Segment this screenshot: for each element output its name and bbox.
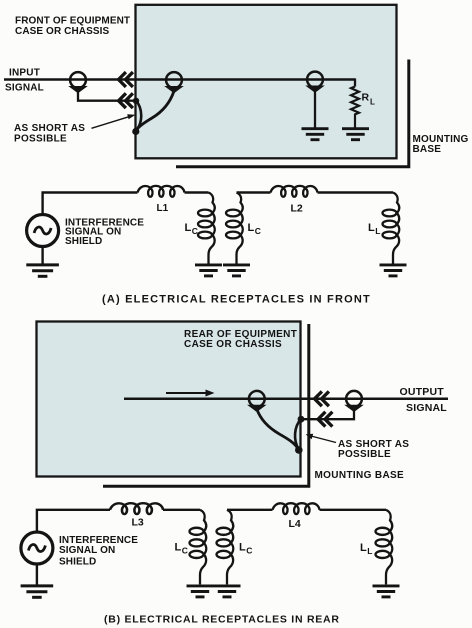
chassis box B bbox=[37, 322, 301, 477]
connector chevrons on output wire bbox=[315, 391, 329, 406]
receptacle J5 bbox=[344, 391, 364, 412]
wire: L3 to Lc1 B bbox=[163, 509, 200, 511]
svg-text:SHIELD: SHIELD bbox=[59, 557, 96, 568]
svg-text:L: L bbox=[370, 97, 375, 106]
svg-text:L: L bbox=[368, 222, 375, 234]
svg-text:(B) ELECTRICAL RECEPTACLES IN: (B) ELECTRICAL RECEPTACLES IN REAR bbox=[104, 614, 340, 626]
inductor L3 bbox=[110, 503, 163, 514]
ground under source B bbox=[21, 586, 54, 597]
wire: source to L1 bbox=[43, 193, 138, 215]
callout arrow AS SHORT AS B bbox=[306, 434, 336, 443]
label FRONT OF EQUIPMENT CASE OR CHASSIS bbox=[15, 16, 130, 38]
caption B bbox=[104, 614, 340, 626]
svg-text:R: R bbox=[362, 92, 370, 104]
inductor L1 bbox=[138, 186, 185, 197]
svg-text:L1: L1 bbox=[157, 203, 169, 214]
svg-text:L4: L4 bbox=[289, 518, 301, 530]
svg-text:L: L bbox=[185, 222, 192, 234]
junction dot chassis B bbox=[295, 446, 303, 454]
wire: L1 to Lc1 bbox=[185, 191, 209, 193]
label REAR OF EQUIPMENT CASE OR CHASSIS bbox=[184, 329, 297, 350]
svg-text:SIGNAL: SIGNAL bbox=[406, 402, 447, 414]
svg-text:L: L bbox=[375, 226, 380, 236]
source ground stem B bbox=[36, 564, 38, 585]
svg-text:CASE OR CHASSIS: CASE OR CHASSIS bbox=[184, 339, 282, 350]
label RL bbox=[362, 92, 376, 107]
mounting base line A bbox=[176, 60, 409, 167]
receptacle J3 bbox=[305, 72, 325, 93]
label L4 bbox=[289, 518, 301, 530]
label L3 bbox=[132, 516, 144, 528]
svg-text:SIGNAL ON: SIGNAL ON bbox=[59, 545, 115, 556]
label LL B bbox=[360, 542, 373, 556]
label INPUT SIGNAL bbox=[5, 68, 44, 94]
label MOUNTING BASE B bbox=[315, 470, 405, 481]
wire: ground strap curve B bbox=[257, 410, 299, 451]
mounting base line B bbox=[103, 324, 309, 486]
svg-text:SIGNAL: SIGNAL bbox=[5, 83, 44, 94]
junction dot shield A bbox=[133, 98, 139, 104]
wire: output signal line bbox=[124, 398, 448, 401]
inductor L4 bbox=[273, 503, 320, 514]
ground under Lc1 B bbox=[187, 586, 214, 597]
ground under LL B bbox=[373, 586, 400, 597]
wire: L4 to LL B bbox=[320, 509, 387, 511]
receptacle J4 bbox=[247, 391, 267, 412]
svg-text:C: C bbox=[192, 226, 198, 236]
wire: Lc2 to L4 bbox=[227, 509, 273, 511]
wire: shield bond arc A bbox=[136, 101, 141, 131]
svg-text:OUTPUT: OUTPUT bbox=[400, 386, 445, 398]
label AS SHORT AS POSSIBLE B bbox=[338, 439, 409, 460]
svg-text:L3: L3 bbox=[132, 516, 144, 528]
interference source A bbox=[27, 215, 59, 247]
caption A bbox=[102, 294, 371, 306]
svg-text:L: L bbox=[248, 222, 255, 234]
label INTERFERENCE SIGNAL ON SHIELD A bbox=[65, 217, 144, 247]
callout arrow AS SHORT AS A bbox=[92, 114, 136, 128]
inductor Lc1 A bbox=[198, 193, 215, 264]
svg-text:L: L bbox=[367, 546, 372, 556]
junction dot shield B bbox=[298, 416, 305, 423]
ground under Lc2 B bbox=[214, 586, 241, 597]
interference source B bbox=[21, 532, 53, 564]
label MOUNTING BASE A bbox=[413, 134, 469, 155]
svg-text:POSSIBLE: POSSIBLE bbox=[338, 449, 391, 460]
svg-text:BASE: BASE bbox=[413, 144, 442, 155]
svg-text:POSSIBLE: POSSIBLE bbox=[14, 133, 67, 144]
label Lc1 A bbox=[185, 222, 198, 236]
flow arrow B bbox=[166, 390, 215, 397]
inductor Lc1 B bbox=[190, 510, 207, 585]
wire: Lc2 to L2 bbox=[237, 191, 271, 193]
ground under Lc2 A bbox=[223, 265, 250, 276]
connector chevrons on shield wire B bbox=[318, 412, 332, 427]
svg-text:AS SHORT AS: AS SHORT AS bbox=[14, 123, 85, 134]
chassis box A bbox=[136, 5, 397, 159]
wire: J3 ground stem bbox=[314, 92, 316, 129]
svg-text:C: C bbox=[182, 545, 188, 555]
label INTERFERENCE SIGNAL ON SHIELD B bbox=[59, 535, 138, 567]
ground under J3 bbox=[302, 129, 329, 140]
svg-text:L: L bbox=[360, 542, 367, 554]
svg-text:FRONT OF EQUIPMENT: FRONT OF EQUIPMENT bbox=[15, 16, 130, 27]
ground under source A bbox=[26, 265, 59, 276]
label L1 bbox=[157, 203, 169, 214]
inductor Lc2 A bbox=[226, 193, 243, 264]
connector chevrons on signal wire bbox=[119, 72, 133, 87]
ground under RL bbox=[342, 129, 369, 140]
svg-text:L2: L2 bbox=[291, 203, 303, 215]
receptacle J2 bbox=[164, 72, 184, 93]
svg-text:C: C bbox=[246, 545, 252, 555]
svg-text:L: L bbox=[239, 542, 246, 554]
wire: shield bond arc B bbox=[295, 419, 301, 449]
label OUTPUT SIGNAL bbox=[400, 386, 448, 414]
wire: ground strap curve A bbox=[136, 91, 174, 132]
ground under LL A bbox=[380, 265, 407, 276]
svg-text:INPUT: INPUT bbox=[9, 68, 40, 79]
wire: input signal line bbox=[4, 78, 355, 81]
svg-text:C: C bbox=[255, 226, 261, 236]
inductor Lc2 B bbox=[217, 510, 234, 585]
label AS SHORT AS POSSIBLE A bbox=[14, 123, 85, 144]
svg-text:(A) ELECTRICAL RECEPTACLES IN: (A) ELECTRICAL RECEPTACLES IN FRONT bbox=[102, 294, 371, 306]
wire: shield lead from J5 bbox=[301, 411, 354, 420]
svg-text:CASE OR CHASSIS: CASE OR CHASSIS bbox=[15, 26, 110, 37]
label LL A bbox=[368, 222, 381, 236]
svg-text:L: L bbox=[175, 542, 182, 554]
inductor LL A bbox=[383, 193, 400, 264]
ground under Lc1 A bbox=[195, 265, 222, 276]
source ground stem A bbox=[41, 247, 43, 265]
label L2 bbox=[291, 203, 303, 215]
label Lc2 B bbox=[239, 542, 252, 556]
inductor L2 bbox=[271, 186, 318, 197]
label Lc1 B bbox=[175, 542, 188, 556]
connector chevrons on shield wire bbox=[119, 93, 133, 108]
inductor LL B bbox=[376, 510, 393, 585]
wire: source to L3 bbox=[37, 510, 110, 532]
svg-text:MOUNTING BASE: MOUNTING BASE bbox=[315, 470, 405, 481]
junction dot chassis A bbox=[132, 128, 139, 135]
wire: shield lead from J1 bbox=[78, 92, 136, 101]
svg-text:SHIELD: SHIELD bbox=[65, 236, 102, 247]
resistor RL bbox=[351, 87, 359, 129]
wire: L2 to LL bbox=[318, 191, 394, 193]
wire: RL branch bbox=[354, 78, 356, 86]
label Lc2 A bbox=[248, 222, 261, 236]
receptacle J1 bbox=[68, 72, 88, 93]
